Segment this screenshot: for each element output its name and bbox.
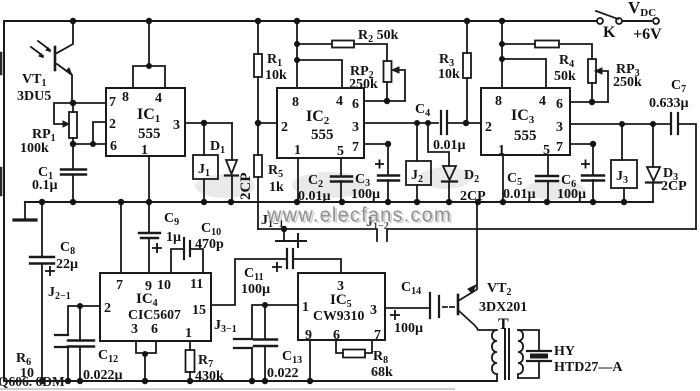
svg-text:3: 3 <box>173 118 180 133</box>
svg-text:1µ: 1µ <box>166 230 181 245</box>
svg-text:7: 7 <box>109 95 116 110</box>
svg-text:100µ: 100µ <box>557 187 586 202</box>
svg-text:3DU5: 3DU5 <box>17 89 51 104</box>
svg-text:4: 4 <box>155 91 162 106</box>
svg-text:3DX201: 3DX201 <box>479 300 527 315</box>
svg-text:CW9310: CW9310 <box>313 308 364 323</box>
svg-text:100µ: 100µ <box>351 187 380 202</box>
svg-text:6: 6 <box>110 139 117 154</box>
svg-text:10: 10 <box>157 278 171 293</box>
svg-text:2CP: 2CP <box>238 173 254 201</box>
svg-text:555: 555 <box>311 127 334 143</box>
svg-text:10k: 10k <box>438 67 460 82</box>
svg-text:R2 50k: R2 50k <box>358 28 399 45</box>
svg-text:100µ: 100µ <box>394 321 423 336</box>
svg-text:15: 15 <box>192 303 206 318</box>
svg-text:11: 11 <box>190 277 203 292</box>
svg-text:4: 4 <box>336 94 343 109</box>
svg-text:10k: 10k <box>265 68 287 83</box>
svg-text:430k: 430k <box>195 369 224 384</box>
svg-text:3: 3 <box>556 120 563 135</box>
svg-text:1: 1 <box>302 300 309 315</box>
svg-text:6: 6 <box>333 328 340 343</box>
svg-text:CIC5607: CIC5607 <box>128 307 181 322</box>
svg-text:0.01µ: 0.01µ <box>503 187 536 202</box>
svg-text:HY: HY <box>554 344 575 359</box>
svg-text:6: 6 <box>556 97 563 112</box>
svg-text:1: 1 <box>185 326 192 341</box>
svg-text:T: T <box>498 316 509 333</box>
svg-text:2: 2 <box>104 301 111 316</box>
svg-text:K: K <box>603 24 616 41</box>
svg-text:100µ: 100µ <box>241 282 270 297</box>
svg-text:8: 8 <box>292 95 299 110</box>
svg-text:2CP: 2CP <box>460 189 486 204</box>
svg-text:2: 2 <box>281 120 288 135</box>
svg-text:0.01µ: 0.01µ <box>433 138 466 153</box>
svg-text:7: 7 <box>352 140 359 155</box>
svg-text:3: 3 <box>370 303 377 318</box>
svg-text:2: 2 <box>485 120 492 135</box>
svg-text:5: 5 <box>543 143 550 158</box>
svg-text:250k: 250k <box>613 75 642 90</box>
svg-text:100k: 100k <box>20 141 49 156</box>
svg-text:555: 555 <box>138 126 161 142</box>
svg-text:0.022µ: 0.022µ <box>83 368 123 383</box>
svg-text:HTD27—A: HTD27—A <box>554 360 623 375</box>
svg-text:1: 1 <box>294 143 301 158</box>
svg-text:7: 7 <box>556 140 563 155</box>
svg-text:7: 7 <box>374 328 381 343</box>
svg-text:6: 6 <box>352 97 359 112</box>
svg-text:0.1µ: 0.1µ <box>32 178 58 193</box>
svg-text:www.elecfans.com: www.elecfans.com <box>266 205 452 227</box>
svg-text:0.022: 0.022 <box>267 366 299 381</box>
svg-text:50k: 50k <box>554 69 576 84</box>
svg-text:+6V: +6V <box>633 26 662 43</box>
svg-text:5: 5 <box>337 144 344 159</box>
svg-text:2: 2 <box>109 117 116 132</box>
svg-text:1: 1 <box>498 143 505 158</box>
svg-text:555: 555 <box>514 128 537 144</box>
svg-text:4: 4 <box>539 94 546 109</box>
svg-text:68k: 68k <box>371 365 393 380</box>
svg-text:250k: 250k <box>349 77 378 92</box>
svg-text:3: 3 <box>352 120 359 135</box>
svg-text:1k: 1k <box>269 180 284 195</box>
svg-text:8: 8 <box>122 90 129 105</box>
svg-text:1: 1 <box>141 143 148 158</box>
svg-text:22µ: 22µ <box>56 257 78 272</box>
svg-text:8: 8 <box>495 94 502 109</box>
svg-text:0.633µ: 0.633µ <box>649 96 689 111</box>
svg-text:9: 9 <box>305 328 312 343</box>
svg-text:470p: 470p <box>195 237 224 252</box>
svg-text:3: 3 <box>131 322 138 337</box>
svg-text:6: 6 <box>151 322 158 337</box>
svg-text:2CP: 2CP <box>661 179 687 194</box>
svg-text:7: 7 <box>116 278 123 293</box>
svg-text:0.01µ: 0.01µ <box>298 189 331 204</box>
svg-text:Q606. 6DM: Q606. 6DM <box>0 374 65 389</box>
